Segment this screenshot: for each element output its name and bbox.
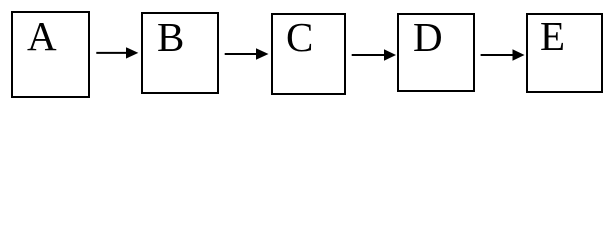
arrow C to D [352,49,396,60]
box D [397,13,475,93]
label A [27,16,57,57]
label E [540,16,565,57]
box A [11,11,90,98]
box E [526,13,604,93]
label D [413,17,443,58]
box B [141,12,219,94]
arrow B to C [225,48,269,59]
arrows [0,0,615,108]
arrow D to E [481,49,525,60]
box C [271,13,346,95]
label C [286,17,313,58]
arrow A to B [96,47,138,58]
label B [157,17,184,58]
